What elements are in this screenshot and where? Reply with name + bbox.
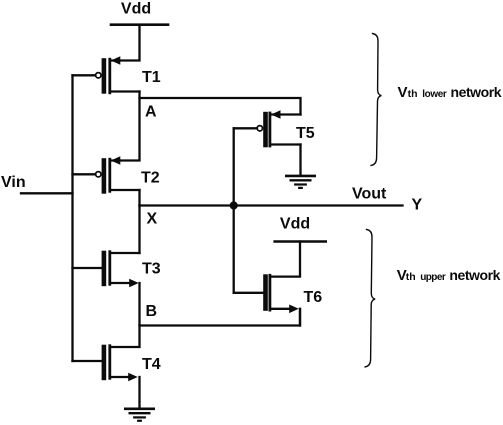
wire T6 source down to node B line bbox=[299, 309, 301, 326]
wire T5 gate to node X junction and down to T6 gate bbox=[234, 128, 257, 292]
label T2 bbox=[141, 170, 160, 187]
wire Vdd rail to T6 drain bbox=[270, 242, 300, 277]
ground symbol (below T4) bbox=[125, 409, 153, 421]
wire T2 gate lead bbox=[73, 173, 96, 175]
svg-text:th: th bbox=[406, 271, 416, 283]
junction dot at X bbox=[230, 201, 238, 209]
svg-text:A: A bbox=[145, 104, 157, 121]
transistor T5 (PMOS, right top) bbox=[257, 110, 300, 147]
wire node A to T5 source (top right run) bbox=[140, 98, 301, 115]
svg-text:Vin: Vin bbox=[1, 174, 26, 191]
wire T6 gate lead bbox=[234, 292, 264, 294]
label Vout bbox=[352, 186, 387, 203]
wire Vin input bbox=[21, 192, 73, 194]
svg-text:network: network bbox=[449, 267, 500, 283]
svg-text:T5: T5 bbox=[296, 125, 315, 142]
label Vth lower network bbox=[398, 84, 502, 101]
label Vin bbox=[1, 174, 26, 191]
svg-text:upper: upper bbox=[420, 272, 446, 283]
brace for Vth upper network bbox=[365, 229, 375, 367]
svg-text:X: X bbox=[147, 211, 158, 228]
label T3 bbox=[142, 261, 161, 278]
wire T2 drain to node X line bbox=[138, 190, 140, 206]
label T5 bbox=[296, 125, 315, 142]
transistor T3 (NMOS) bbox=[102, 251, 140, 288]
power rail Vdd right bbox=[275, 240, 326, 243]
node A bbox=[145, 104, 157, 121]
svg-text:T6: T6 bbox=[304, 289, 323, 306]
svg-text:lower: lower bbox=[422, 89, 447, 100]
ground symbol (below T5) bbox=[286, 176, 314, 188]
label Y bbox=[412, 197, 423, 214]
transistor T4 (NMOS) bbox=[102, 345, 138, 382]
wire T4 gate lead bbox=[73, 360, 102, 362]
wire T3 source down through node B to T4 drain bbox=[110, 283, 140, 347]
label T6 bbox=[304, 289, 323, 306]
label Vdd (right supply) bbox=[280, 216, 310, 233]
svg-text:T1: T1 bbox=[142, 69, 161, 86]
svg-text:Vdd: Vdd bbox=[121, 1, 151, 18]
wire node B to T6 source (lower right run) bbox=[140, 309, 301, 326]
label Vth upper network bbox=[397, 267, 501, 284]
svg-text:B: B bbox=[146, 303, 158, 320]
label T4 bbox=[142, 356, 161, 373]
node B label bbox=[146, 303, 158, 320]
svg-text:Vout: Vout bbox=[352, 186, 387, 203]
wire T4 source to ground bbox=[138, 377, 140, 409]
transistor T1 (PMOS) bbox=[96, 56, 140, 93]
transistor T2 (PMOS) bbox=[96, 156, 140, 194]
svg-text:T4: T4 bbox=[142, 356, 161, 373]
svg-text:th: th bbox=[408, 88, 418, 100]
wire T5 drain to ground bbox=[299, 145, 301, 176]
wire T3 gate lead bbox=[73, 267, 102, 269]
label Vdd (left supply) bbox=[121, 1, 151, 18]
svg-text:network: network bbox=[451, 84, 502, 100]
svg-text:T3: T3 bbox=[142, 261, 161, 278]
gate bus vertical (Vin to T1..T4 gates) bbox=[71, 75, 73, 361]
power rail Vdd left bbox=[111, 23, 168, 26]
wire Vdd rail to T1 source bbox=[112, 25, 140, 61]
label T1 bbox=[142, 69, 161, 86]
svg-text:T2: T2 bbox=[141, 170, 160, 187]
wire T1 drain down through node A to T2 source bbox=[111, 92, 140, 161]
brace for Vth lower network bbox=[371, 34, 381, 166]
node X label bbox=[147, 211, 158, 228]
svg-text:Y: Y bbox=[412, 197, 423, 214]
wire T1 gate lead bbox=[73, 74, 96, 76]
wire T3 drain up to node X line bbox=[138, 206, 140, 254]
wire node X / Vout line bbox=[140, 204, 403, 206]
svg-text:Vdd: Vdd bbox=[280, 216, 310, 233]
transistor T6 (NMOS, right bottom) bbox=[263, 274, 299, 313]
svg-text:V: V bbox=[398, 84, 408, 101]
